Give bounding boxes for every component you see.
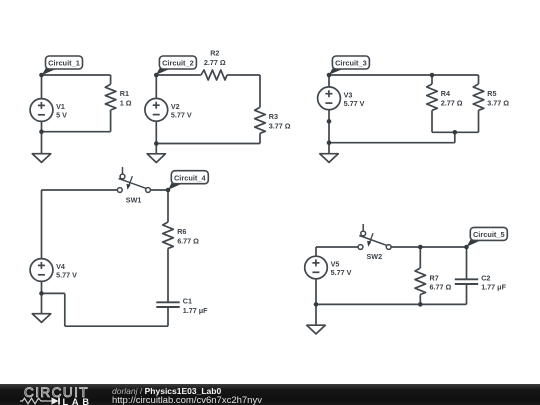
node Circuit_2 (named net flag) xyxy=(156,56,196,75)
svg-text:5.77 V: 5.77 V xyxy=(171,110,192,119)
wire xyxy=(42,292,65,294)
svg-text:SW1: SW1 xyxy=(126,195,142,204)
ground xyxy=(307,304,325,334)
svg-text:6.77 Ω: 6.77 Ω xyxy=(430,283,452,292)
voltage source V5 xyxy=(305,247,328,304)
node (V4 bottom junction) xyxy=(39,291,44,296)
wire xyxy=(156,74,193,76)
svg-text:R1: R1 xyxy=(120,89,129,98)
svg-text:6.77 Ω: 6.77 Ω xyxy=(177,237,199,246)
resistor R1 xyxy=(105,75,116,132)
footer bar xyxy=(0,384,540,405)
svg-text:R5: R5 xyxy=(487,89,496,98)
node (bottom junction) xyxy=(154,141,159,146)
svg-text:5.77 V: 5.77 V xyxy=(331,268,352,277)
ground xyxy=(32,132,50,163)
node (top junction) xyxy=(154,73,159,78)
svg-text:2.77 Ω: 2.77 Ω xyxy=(441,99,463,108)
ground xyxy=(32,293,50,322)
CircuitLab logo xyxy=(22,384,100,405)
wire xyxy=(328,121,330,142)
switch SW2 xyxy=(358,224,391,249)
node (V5 bottom junction) xyxy=(314,302,319,307)
svg-text:C2: C2 xyxy=(481,273,490,282)
node (top junction) xyxy=(327,73,332,78)
svg-text:R4: R4 xyxy=(441,89,450,98)
svg-text:Circuit_1: Circuit_1 xyxy=(48,59,80,68)
wire xyxy=(432,131,479,133)
value label V3 5.77 V xyxy=(344,91,365,108)
ground xyxy=(320,143,338,163)
ground xyxy=(147,144,165,163)
capacitor C2 xyxy=(455,247,478,304)
value label V1 5 V xyxy=(56,102,67,119)
value label R6 6.77 &#937; xyxy=(177,227,199,245)
wire xyxy=(65,325,168,327)
wire xyxy=(391,246,466,248)
value label R4 2.77 &#937; xyxy=(441,89,463,107)
svg-text:1.77 μF: 1.77 μF xyxy=(481,283,506,292)
resistor R5 xyxy=(473,75,484,132)
resistor R6 xyxy=(163,190,174,260)
value label R3 3.77 &#937; xyxy=(269,112,291,130)
node (C2 top junction) xyxy=(464,245,469,250)
wire xyxy=(42,189,118,191)
switch SW1 xyxy=(117,167,150,192)
value label C1 1.77 &#956;F xyxy=(183,296,208,314)
svg-text:C1: C1 xyxy=(183,296,192,305)
svg-text:3.77 Ω: 3.77 Ω xyxy=(487,99,509,108)
node (V3 minus junction) xyxy=(327,119,332,124)
svg-text:SW2: SW2 xyxy=(367,252,383,261)
svg-text:R2: R2 xyxy=(210,48,219,57)
wire xyxy=(238,74,260,76)
wire xyxy=(156,143,260,145)
value label V4 5.77 V xyxy=(56,262,77,279)
voltage source V1 xyxy=(30,75,53,132)
capacitor C1 xyxy=(156,300,179,326)
node Circuit_3 (named net flag) xyxy=(329,56,370,75)
voltage source V3 xyxy=(318,75,341,121)
node (top-left junction) xyxy=(39,73,44,78)
resistor R7 xyxy=(415,247,426,304)
svg-text:R3: R3 xyxy=(269,112,278,121)
resistor R4 xyxy=(427,75,438,132)
svg-text:Circuit_2: Circuit_2 xyxy=(162,59,194,68)
svg-text:Circuit_3: Circuit_3 xyxy=(335,59,367,68)
svg-text:Circuit_4: Circuit_4 xyxy=(174,173,207,182)
wire xyxy=(150,189,168,191)
node (R7 bottom junction) xyxy=(418,302,423,307)
wire xyxy=(316,246,358,248)
node (bottom junction) xyxy=(39,129,44,134)
voltage source V2 xyxy=(145,75,168,144)
value label R1 1 &#937; xyxy=(120,89,132,107)
wire xyxy=(329,142,455,144)
svg-text:5.77 V: 5.77 V xyxy=(344,99,365,108)
value label V2 5.77 V xyxy=(171,102,192,119)
value label R2 2.77 &#937; xyxy=(204,48,226,66)
node Circuit_1 (named net flag) xyxy=(42,56,83,75)
value label V5 5.77 V xyxy=(331,260,352,277)
svg-text:1.77 μF: 1.77 μF xyxy=(183,306,208,315)
svg-text:R6: R6 xyxy=(177,227,186,236)
node (parallel bottom junction) xyxy=(453,130,458,135)
value label R5 3.77 &#937; xyxy=(487,89,509,107)
voltage source V4 xyxy=(30,190,53,293)
svg-text:2.77 Ω: 2.77 Ω xyxy=(204,58,226,67)
footer titles xyxy=(112,386,221,395)
svg-text:1 Ω: 1 Ω xyxy=(120,99,132,108)
wire xyxy=(329,74,479,76)
resistor R2 xyxy=(193,70,238,80)
wire xyxy=(42,131,111,133)
node Circuit_5 (named net flag) xyxy=(467,227,508,246)
svg-text:5.77 V: 5.77 V xyxy=(56,271,77,280)
node (switch output junction) xyxy=(166,188,171,193)
node (R7 top junction) xyxy=(418,245,423,250)
wire xyxy=(454,132,456,142)
wire xyxy=(316,303,467,305)
node (ground junction) xyxy=(327,140,332,145)
wire xyxy=(64,293,66,326)
svg-text:Circuit_5: Circuit_5 xyxy=(473,230,505,239)
wire xyxy=(167,260,169,300)
svg-text:R7: R7 xyxy=(430,273,439,282)
svg-text:5 V: 5 V xyxy=(56,111,67,120)
value label C2 1.77 &#956;F xyxy=(481,273,506,291)
svg-text:3.77 Ω: 3.77 Ω xyxy=(269,122,291,131)
wire xyxy=(42,74,111,76)
value label R7 6.77 &#937; xyxy=(430,273,452,291)
node Circuit_4 (named net flag) xyxy=(168,171,208,190)
resistor R3 xyxy=(255,75,266,144)
node (R4 tap junction) xyxy=(430,73,435,78)
